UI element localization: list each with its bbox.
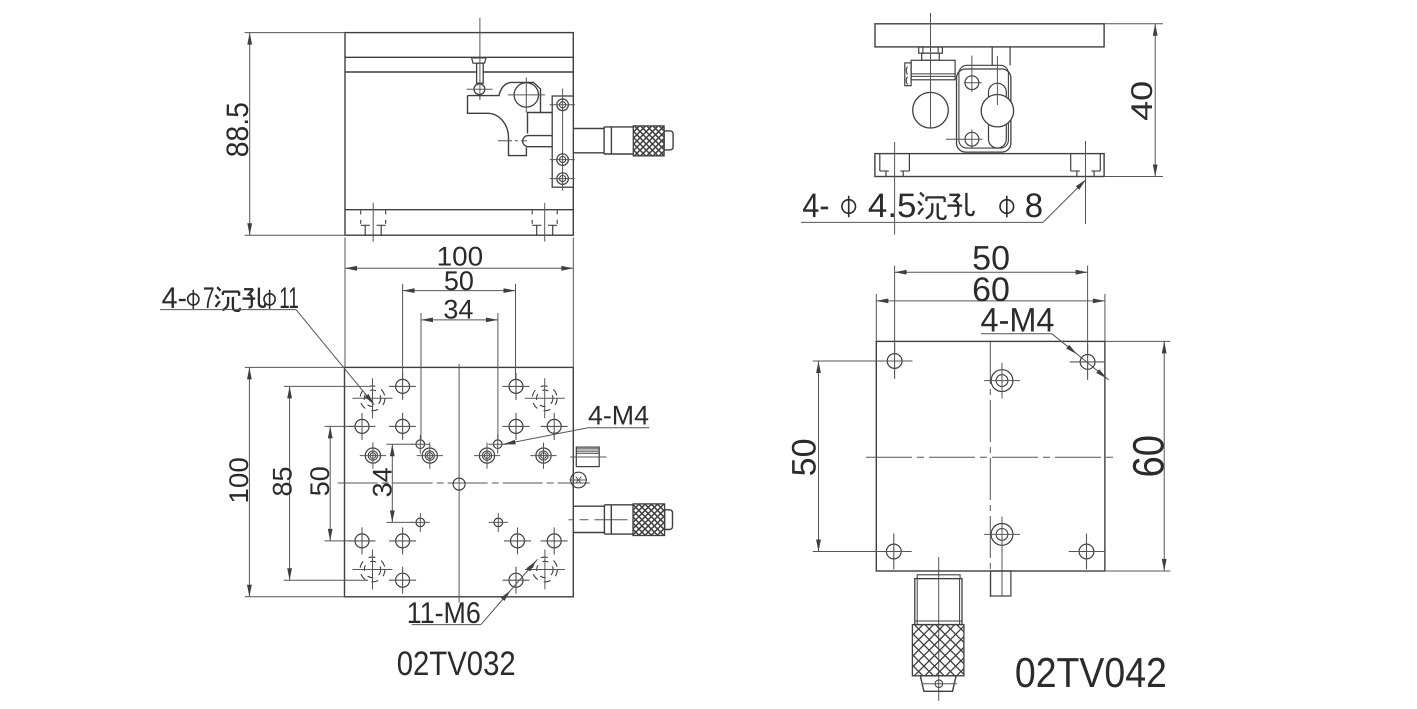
- M4 corner hole BL (042): [876, 534, 912, 570]
- micrometer bottom cap (042): [920, 676, 957, 692]
- ext line 50 right: [515, 284, 517, 379]
- label 4-M4 (042): [981, 301, 1055, 339]
- ext 60 right top: [1105, 340, 1170, 342]
- counterbore slot right in base (side view): [532, 203, 557, 242]
- pin cap: [472, 58, 486, 63]
- square horizontal centerline: [338, 482, 590, 484]
- M4 corner hole BR (042): [1069, 534, 1105, 570]
- micrometer barrel (top view): [573, 506, 604, 532]
- svg-text:34: 34: [368, 467, 398, 497]
- ball tick line: [467, 59, 493, 101]
- dim text 34 left: [368, 467, 398, 497]
- spindle: [523, 136, 553, 147]
- 042 square horizontal centerline: [866, 456, 1116, 458]
- dim text 50 left (042): [785, 438, 823, 476]
- svg-text:60: 60: [1124, 435, 1173, 478]
- ext line 34v bottom: [387, 521, 414, 523]
- M6 tapped hole r5a: [349, 527, 376, 554]
- 042 square vertical centerline: [989, 342, 991, 597]
- svg-text:85: 85: [267, 466, 297, 496]
- micrometer knurled knob (042): [861, 625, 1018, 676]
- base slot centerline left: [894, 142, 896, 235]
- screw collar: [922, 53, 940, 60]
- ext 50 top right: [1087, 266, 1089, 354]
- micrometer barrel (side view): [573, 129, 604, 153]
- hanger bar: [992, 47, 1010, 66]
- label 11-M6: [407, 597, 481, 630]
- label 4-M4 leader (042): [981, 334, 1109, 380]
- micrometer knurled thimble (top view): [601, 504, 701, 536]
- micrometer barrel step lines: [604, 127, 633, 154]
- svg-text:50: 50: [444, 266, 474, 296]
- dim text 50 left: [305, 466, 335, 496]
- bracket clamp circle: [508, 78, 545, 113]
- socket screw head 3: [474, 443, 500, 469]
- M6 tapped hole r2b: [389, 413, 416, 440]
- center screw top (042): [984, 363, 1020, 399]
- micrometer barrel steps (top view): [604, 505, 633, 534]
- ext line 50 left: [402, 284, 404, 379]
- label 4-phi4.5 counterbore phi8: [802, 187, 1043, 225]
- label 11-M6 leader: [412, 559, 538, 624]
- counterbore hole BL: [353, 550, 393, 590]
- ext 60 top left: [875, 294, 877, 341]
- micrometer adapter (042): [917, 575, 960, 579]
- ext line 34 left: [420, 313, 422, 439]
- bottom micrometer centerline: [938, 557, 940, 701]
- caption 02TV042: [1015, 649, 1167, 696]
- dim text 50 top: [444, 266, 474, 296]
- svg-text:50: 50: [305, 466, 335, 496]
- spring slot (stadium): [989, 83, 1007, 148]
- label 4-M4 leader: [504, 428, 650, 445]
- dim 50 top line: [403, 288, 516, 293]
- svg-text:88.5: 88.5: [220, 102, 255, 157]
- dim text 60 top: [972, 271, 1010, 309]
- dim 50 top line (042): [895, 270, 1088, 275]
- M6 tapped hole r1a: [389, 373, 416, 400]
- mount plate screw 1: [550, 99, 575, 111]
- adjust screw centerline overlay: [930, 48, 932, 128]
- M4 hole top-left: [411, 435, 430, 454]
- ext line 100 right: [572, 238, 574, 368]
- counterbore hole TL: [353, 378, 393, 418]
- dim text 85: [267, 466, 297, 496]
- slot centerline: [996, 56, 998, 105]
- ext line 85 bottom: [284, 579, 368, 581]
- ext 50 top left: [894, 266, 896, 353]
- svg-text:50: 50: [785, 438, 823, 476]
- svg-text:40: 40: [1126, 81, 1159, 121]
- bracket hole upper: [964, 56, 982, 93]
- ext line 50v bottom: [325, 540, 355, 542]
- 02TV042 top plate: [875, 24, 1104, 47]
- dim text 100 left: [224, 457, 254, 504]
- micrometer end cap (top view): [665, 510, 673, 530]
- ext 40 bottom: [1104, 176, 1163, 178]
- dim 88.5 line: [247, 33, 252, 236]
- dim text 50 top (042): [972, 239, 1010, 277]
- ext line 50v top: [325, 425, 355, 427]
- M4 hole bottom-left: [411, 513, 430, 532]
- ext line 34 right: [497, 313, 499, 439]
- base counterbore slot left (042): [880, 154, 910, 177]
- ext 60 top right: [1104, 294, 1106, 341]
- micrometer drive bracket (side view): [468, 82, 553, 155]
- M6 tapped hole r2a: [349, 413, 376, 440]
- dim 100 left line: [247, 367, 252, 596]
- M6 tapped hole r6b: [503, 567, 530, 594]
- micrometer end cap (side view): [664, 131, 673, 150]
- label 042 underline + leader: [801, 180, 1086, 223]
- svg-text:34: 34: [443, 294, 473, 324]
- 02TV032 side view body: [345, 33, 573, 236]
- M6 tapped hole r2c: [503, 413, 530, 440]
- drive ball (042): [913, 92, 949, 128]
- ext 40 top: [1104, 23, 1163, 25]
- 02TV042 base plate: [875, 154, 1104, 177]
- bracket plate front (042): [957, 69, 1011, 152]
- M6 tapped hole r2d: [541, 413, 568, 440]
- lock knob (top view): [576, 447, 599, 467]
- M4 corner hole TL (042): [877, 343, 913, 379]
- dim 100 top line: [345, 266, 573, 271]
- svg-text:4-: 4-: [802, 187, 829, 225]
- mount plate screw centerline: [562, 89, 564, 191]
- bracket plate back (042): [959, 65, 1009, 148]
- M6 tapped hole r6a: [389, 567, 416, 594]
- mount plate screw 3: [550, 173, 575, 185]
- ext line 100 left: [344, 238, 346, 368]
- socket screw head 1: [360, 443, 386, 469]
- square vertical centerline: [458, 364, 460, 603]
- top-view square plate 02TV032: [345, 367, 574, 596]
- base counterbore slot right (042): [1071, 154, 1101, 177]
- micrometer mount plate: [552, 96, 573, 187]
- dim 85 line: [287, 386, 292, 580]
- side thumbscrew tab: [905, 63, 911, 86]
- svg-text:02TV032: 02TV032: [397, 645, 516, 683]
- M6 tapped hole r1b: [503, 373, 530, 400]
- 02TV032 side view top plate groove line 2: [345, 71, 573, 73]
- adjust screw centerline (042): [930, 13, 932, 129]
- counterbore slot left in base (side view): [361, 203, 386, 242]
- dim 40 line: [1153, 24, 1158, 177]
- ext line 100 vert top: [245, 366, 345, 368]
- center socket screw: [453, 478, 465, 490]
- M6 tapped hole r5c: [504, 527, 531, 554]
- svg-text:11-M6: 11-M6: [407, 597, 481, 630]
- dim text 60 right: [1124, 435, 1173, 478]
- bracket hole lower: [946, 129, 983, 149]
- ext line 100 vert bottom: [245, 596, 345, 598]
- M4 corner hole TR (042): [1070, 344, 1106, 380]
- dim 60 top line: [876, 299, 1105, 304]
- adjust knob: [911, 60, 955, 80]
- dim 88.5 bottom extension line: [245, 234, 345, 236]
- label 4-phi7 counterbore phi11: [162, 282, 299, 315]
- micrometer centerline (top view): [569, 519, 629, 521]
- dim 50 left line (042): [816, 361, 821, 552]
- counterbore hole TR: [525, 378, 565, 418]
- micrometer knurled thimble (side view): [603, 126, 695, 156]
- clamp circle (042): [981, 95, 1013, 127]
- ext line 34v top: [387, 443, 414, 445]
- label 4-M4 left: [588, 401, 649, 431]
- lock knob centerline: [570, 456, 606, 458]
- dim text 40: [1126, 81, 1159, 121]
- caption 02TV032: [397, 645, 516, 683]
- dim 34 top line: [421, 318, 498, 323]
- ext 60 right bottom: [1105, 570, 1170, 572]
- ball: [474, 84, 485, 95]
- ext 50 left bottom (042): [813, 551, 887, 553]
- svg-text:8: 8: [1025, 187, 1043, 225]
- counterbore hole BR: [525, 550, 565, 590]
- M6 tapped hole r5b: [389, 527, 416, 554]
- screw flange: [919, 47, 943, 53]
- dim 60 right line: [1162, 341, 1167, 571]
- M6 tapped hole r5d: [541, 527, 568, 554]
- side adjust screw: [569, 472, 586, 488]
- 02TV032 side view base top line: [345, 209, 573, 211]
- ext 50 left top (042): [813, 360, 887, 362]
- dim 34 left line: [390, 444, 395, 522]
- micrometer barrel (042): [915, 579, 962, 625]
- dim text 88.5: [220, 102, 255, 157]
- center screw bottom (042): [984, 517, 1020, 597]
- base slot centerline right: [1085, 141, 1087, 224]
- svg-text:4-M4: 4-M4: [588, 401, 649, 431]
- top-view square plate 02TV042: [876, 341, 1105, 571]
- socket screw head 4: [530, 443, 556, 469]
- socket screw head 2: [417, 443, 443, 469]
- pin shaft: [477, 63, 484, 83]
- svg-text:100: 100: [224, 457, 254, 504]
- dim 50 left line: [328, 426, 333, 541]
- micrometer centerline (side view): [498, 140, 527, 142]
- dim text 100 top: [437, 242, 484, 272]
- 02TV032 side view top plate groove line 1: [345, 56, 573, 58]
- M4 hole top-right: [488, 435, 507, 454]
- pin centerline: [479, 18, 481, 99]
- dim text 34 top: [443, 294, 473, 324]
- svg-text:02TV042: 02TV042: [1015, 649, 1167, 696]
- dim 88.5 top extension line: [245, 32, 345, 34]
- M4 hole bottom-right: [489, 513, 508, 532]
- ext line 85 top: [284, 385, 368, 387]
- label underline + leader to TL counterbore: [160, 310, 374, 405]
- center tab below square: [991, 571, 1011, 596]
- svg-text:4.5: 4.5: [868, 187, 917, 225]
- mount plate screw 2: [550, 154, 575, 166]
